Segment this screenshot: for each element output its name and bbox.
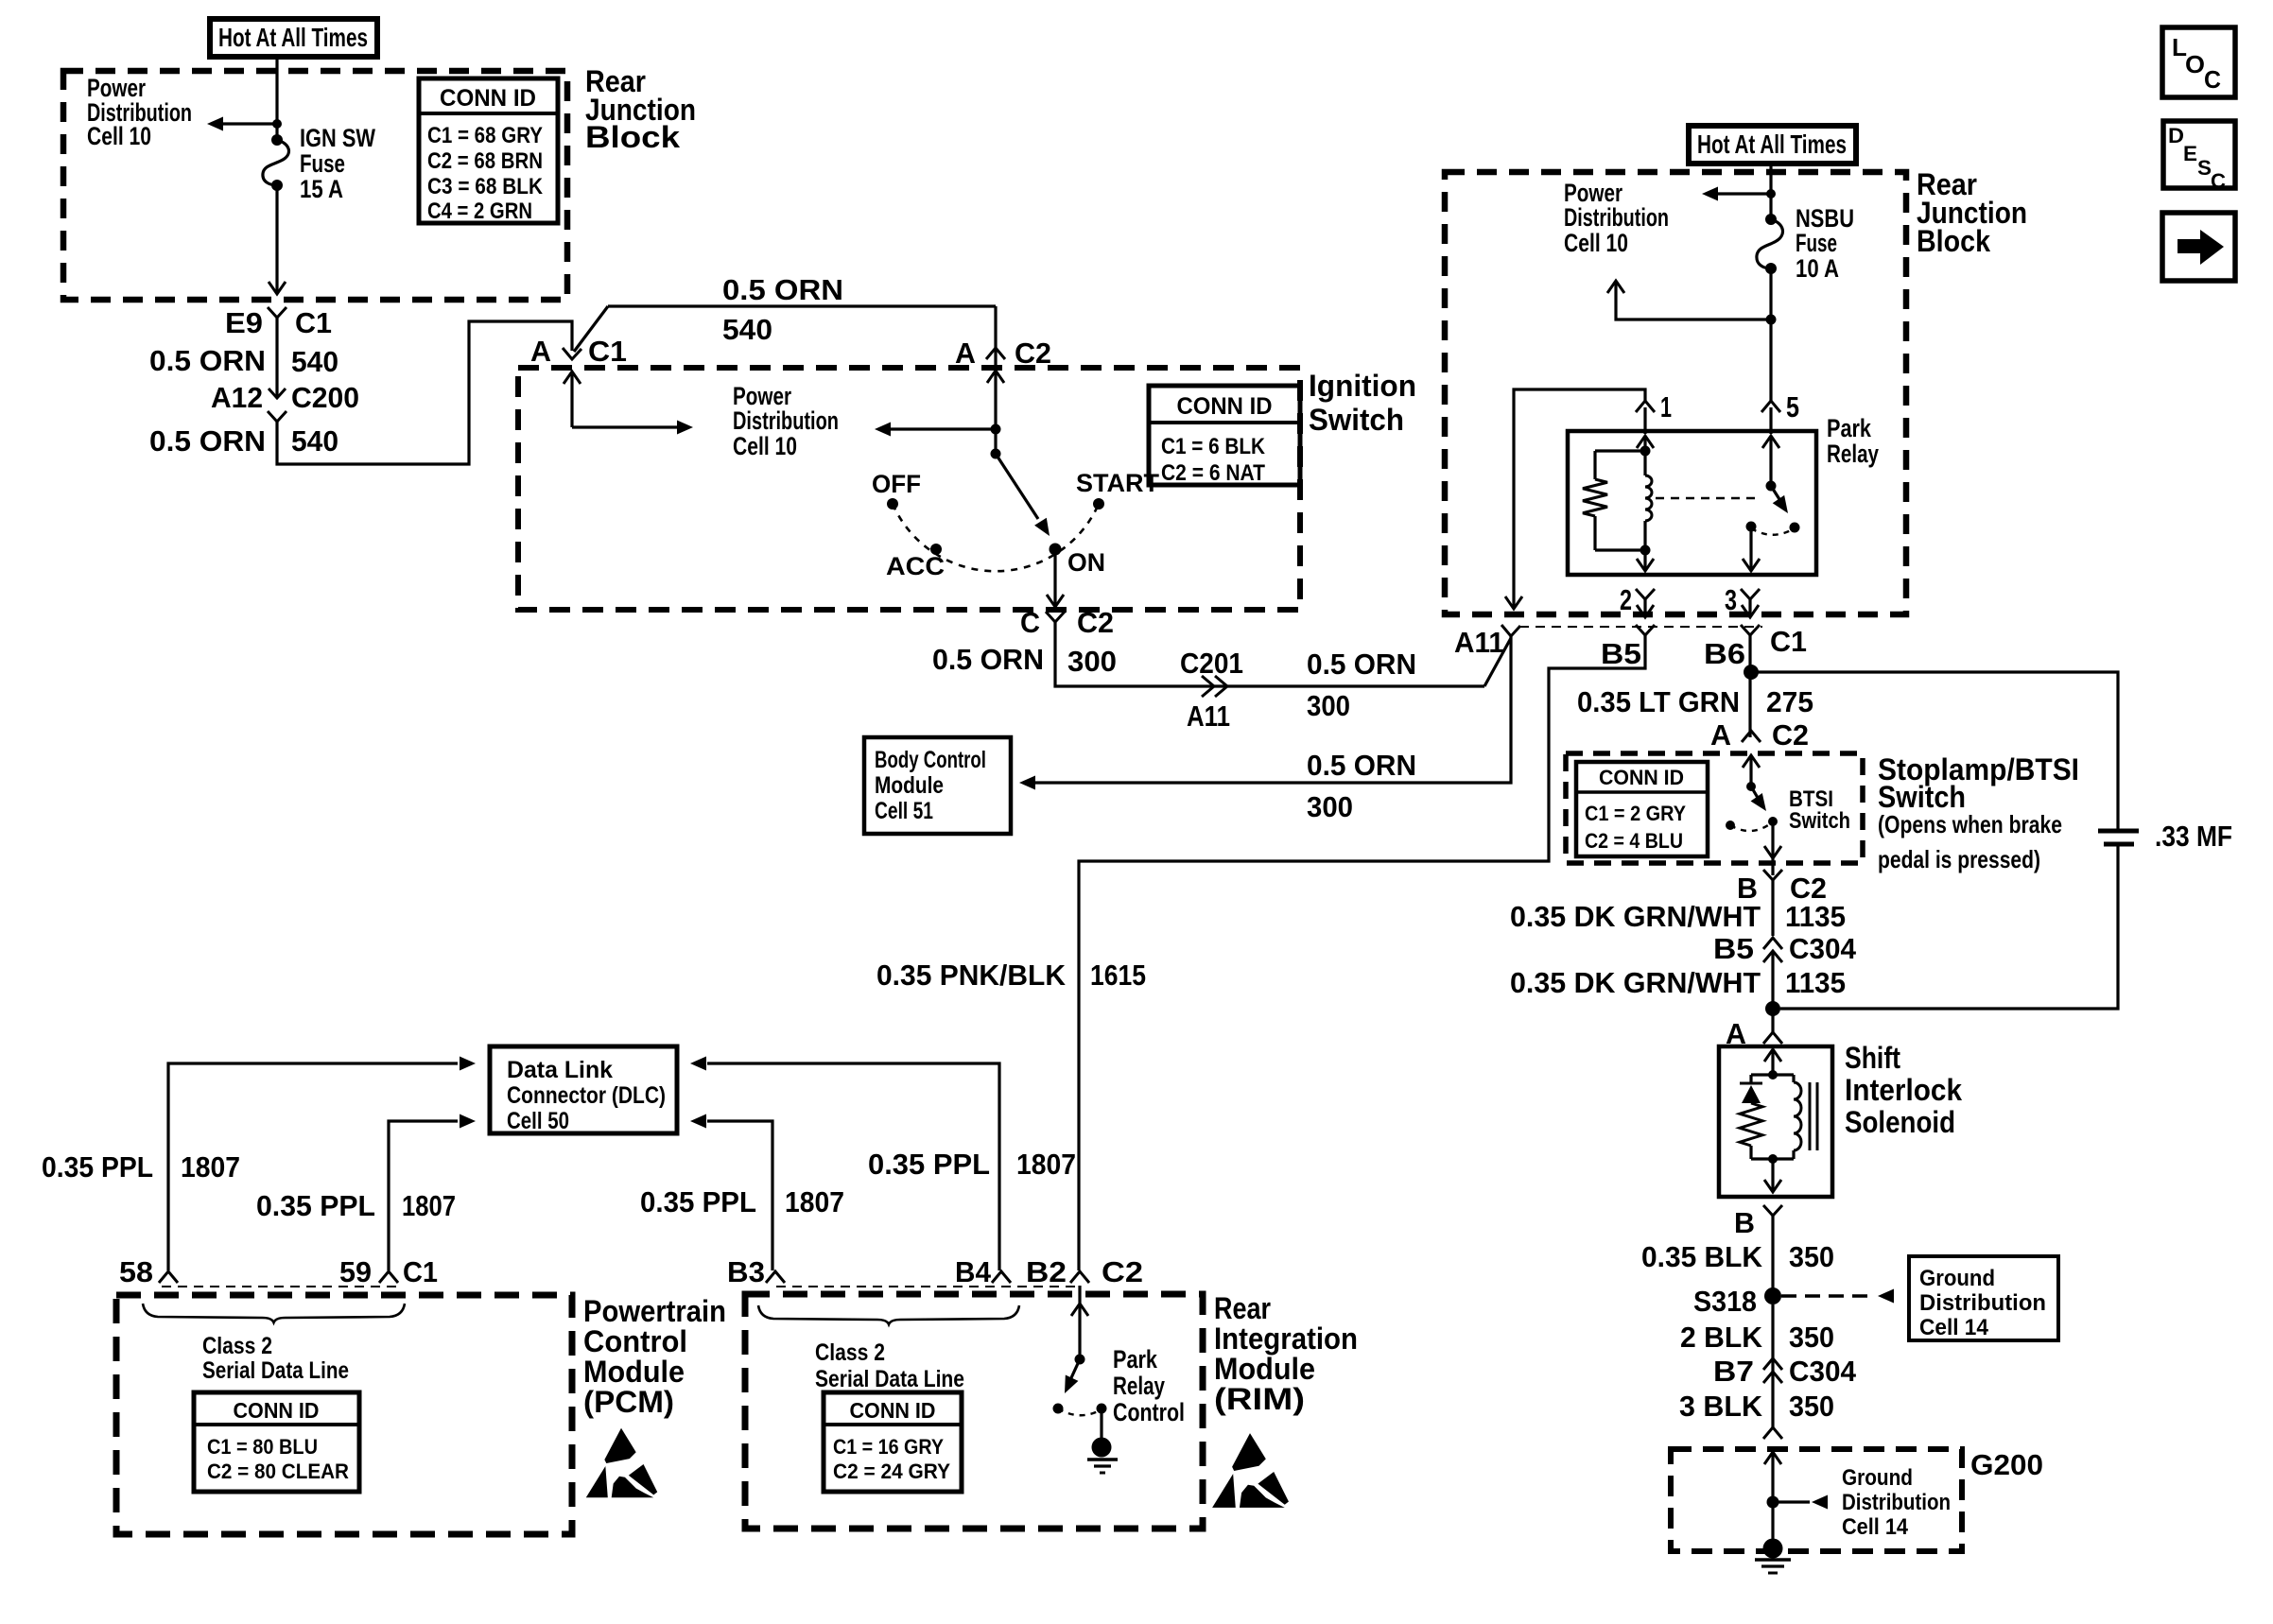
svg-text:A: A (1710, 718, 1731, 752)
node B6 capacitor tap (1744, 665, 1759, 680)
connector B (shift interlock solenoid) (1734, 1205, 1782, 1239)
wire label 0.5 ORN (jumper) (722, 273, 843, 306)
capacitor .33 MF plates (2098, 831, 2139, 844)
solenoid coil (1794, 1075, 1801, 1159)
node ignition feed (991, 424, 1001, 435)
svg-text:0.35 BLK: 0.35 BLK (1641, 1240, 1763, 1273)
BTSI switch arm (1751, 786, 1773, 815)
svg-text:5: 5 (1786, 390, 1799, 423)
svg-text:0.5 ORN: 0.5 ORN (722, 273, 843, 306)
wire C2 into ignition switch (987, 349, 1004, 454)
connector B4 (RIM) (955, 1255, 1011, 1288)
svg-text:C201: C201 (1180, 647, 1243, 680)
wire label 1807 (B4) (1016, 1148, 1076, 1181)
wire PCM 58 to DLC (168, 1057, 476, 1271)
brace Class 2 serial data (RIM) (758, 1305, 1019, 1324)
park relay control travel dashed arc (1058, 1408, 1102, 1415)
svg-text:Distribution: Distribution (733, 406, 839, 435)
svg-text:S: S (2197, 156, 2212, 180)
shift interlock solenoid box (1719, 1046, 1832, 1197)
solenoid suppression diode (1740, 1075, 1762, 1103)
svg-text:B: B (1734, 1206, 1755, 1239)
svg-text:C: C (1020, 606, 1040, 639)
wire label 300 (to C201) (1067, 645, 1117, 678)
label Stoplamp/BTSI Switch (1878, 752, 2079, 873)
svg-text:0.35 PPL: 0.35 PPL (256, 1189, 375, 1222)
svg-text:300: 300 (1307, 790, 1353, 823)
svg-text:C: C (2211, 169, 2226, 193)
in-line connector C200 pin A12 (211, 381, 359, 422)
svg-text:0.35 DK GRN/WHT: 0.35 DK GRN/WHT (1510, 966, 1761, 999)
wire fuse to connector E9 (269, 189, 286, 294)
svg-text:Interlock: Interlock (1845, 1073, 1962, 1107)
svg-text:2 BLK: 2 BLK (1680, 1321, 1763, 1354)
ignition switch arm to ON (996, 454, 1055, 540)
wire label 2 BLK (1680, 1321, 1763, 1354)
svg-text:C2 = 6 NAT: C2 = 6 NAT (1161, 460, 1265, 486)
connector B2 / C2 (RIM) (1026, 1255, 1143, 1288)
wire label 1615 (1090, 959, 1146, 992)
wire RIM B4 to DLC (690, 1057, 999, 1271)
wire to capacitor (top) (1751, 672, 2118, 829)
label Ground Distribution Cell 14 (G200) (1842, 1465, 1951, 1540)
svg-text:Switch: Switch (1309, 403, 1404, 437)
svg-text:C2: C2 (1077, 606, 1114, 639)
svg-text:540: 540 (291, 424, 338, 458)
svg-text:C304: C304 (1789, 1355, 1857, 1388)
node G200 branch (1767, 1496, 1779, 1509)
svg-text:3: 3 (1725, 583, 1737, 616)
park relay switch feed (1762, 407, 1779, 492)
svg-text:Ground: Ground (1919, 1266, 1995, 1291)
svg-text:O: O (2185, 50, 2205, 78)
icon box LOC (2162, 27, 2235, 97)
svg-text:1615: 1615 (1090, 959, 1146, 992)
svg-text:Ignition: Ignition (1309, 369, 1416, 403)
wire label 300 (after C201) (1307, 689, 1350, 722)
svg-text:C304: C304 (1789, 932, 1857, 965)
label G200 (1970, 1448, 2043, 1481)
CONN ID table (ignition switch) (1149, 386, 1300, 486)
wire into solenoid (1764, 1049, 1781, 1075)
svg-text:Block: Block (1917, 224, 1990, 258)
ESD sensitive symbol (PCM) (586, 1428, 657, 1498)
svg-text:IGN SW: IGN SW (300, 124, 375, 152)
park relay switch arm (1771, 486, 1794, 517)
svg-text:Cell 10: Cell 10 (733, 432, 797, 460)
in-line connector B7 / C304 (1713, 1355, 1857, 1388)
icon box DESC (2163, 121, 2235, 193)
wire pin A into switch to Power Distribution (564, 371, 693, 435)
connector C / C2 (ignition switch output) (1020, 606, 1114, 639)
svg-text:C3 = 68 BLK: C3 = 68 BLK (427, 174, 544, 199)
solenoid top rail (1751, 1070, 1794, 1080)
ignition switch dashed outline (518, 368, 1300, 610)
svg-text:350: 350 (1789, 1390, 1834, 1423)
svg-text:Solenoid: Solenoid (1845, 1105, 1955, 1139)
svg-text:B7: B7 (1713, 1355, 1754, 1388)
svg-text:.33 MF: .33 MF (2155, 820, 2232, 853)
svg-text:C2 = 4 BLU: C2 = 4 BLU (1585, 829, 1683, 853)
connector A / C2 (stoplamp switch) (1710, 718, 1809, 752)
wire arrow to Ground Distribution Cell 14 (G200) (1773, 1495, 1828, 1510)
connector into G200 (1763, 1427, 1782, 1439)
svg-text:C4 = 2 GRN: C4 = 2 GRN (427, 199, 532, 224)
label Power Distribution Cell 10 (left) (87, 74, 192, 150)
wire BTSI switch to B/C2 (1764, 821, 1781, 875)
svg-text:0.35 LT GRN: 0.35 LT GRN (1577, 685, 1740, 718)
svg-text:Control: Control (1113, 1398, 1185, 1426)
in-line connector B5 / C304 (1713, 932, 1857, 965)
ground point G200 (1755, 1539, 1791, 1574)
wire B6 down to stoplamp switch (1748, 635, 1751, 737)
svg-text:0.5 ORN: 0.5 ORN (1307, 749, 1416, 782)
rear junction block (right) dashed outline (1445, 172, 1906, 614)
svg-text:Cell 10: Cell 10 (1564, 229, 1628, 257)
park relay coil to pin 2 (1637, 550, 1654, 571)
wire B5 to park relay control (0.35 PNK/BLK 1615) (1079, 635, 1645, 1270)
svg-text:E: E (2183, 142, 2197, 165)
svg-text:Park: Park (1113, 1345, 1158, 1373)
box Data Link Connector (DLC) Cell 50 (490, 1046, 677, 1134)
svg-text:Module: Module (875, 772, 944, 799)
wire B/C2 to C304 (1771, 880, 1774, 936)
connector pin 1 of park relay (1636, 390, 1672, 423)
svg-text:0.35 DK GRN/WHT: 0.35 DK GRN/WHT (1510, 900, 1761, 933)
svg-text:Hot At All Times: Hot At All Times (218, 23, 368, 52)
svg-text:Distribution: Distribution (1919, 1290, 2046, 1316)
label Ignition Switch (1309, 369, 1416, 437)
svg-text:1807: 1807 (402, 1189, 456, 1222)
svg-text:Cell 50: Cell 50 (507, 1108, 569, 1134)
stoplamp/BTSI switch dashed outline (1566, 753, 1863, 863)
in-line connector C201 pin A11 (1180, 647, 1243, 733)
svg-text:A: A (530, 335, 551, 368)
svg-text:CONN ID: CONN ID (440, 85, 536, 112)
svg-text:C200: C200 (291, 381, 359, 414)
wire label 540 (jumper) (722, 313, 772, 346)
svg-text:300: 300 (1307, 689, 1350, 722)
label Power Distribution Cell 10 (right) (1564, 179, 1669, 257)
wire label 0.35 LT GRN (1577, 685, 1740, 718)
label START (1076, 469, 1159, 497)
svg-text:B2: B2 (1026, 1255, 1067, 1288)
wire arrow to Power Distribution (right) (1702, 187, 1771, 201)
BTSI switch pivot dot (1746, 782, 1756, 791)
wire arrow to Power Distribution (from C2 feed) (875, 423, 996, 437)
switch position dot ON (1050, 544, 1062, 556)
wire arrow to Power Distribution Cell 10 (left) (207, 117, 277, 131)
svg-text:C1 = 16 GRY: C1 = 16 GRY (833, 1435, 944, 1459)
wire PCM 59 to DLC (389, 1114, 476, 1271)
svg-text:(RIM): (RIM) (1214, 1382, 1305, 1416)
wire ON to connector C (1047, 549, 1064, 607)
wire label 3 BLK (1679, 1390, 1763, 1423)
svg-text:0.35 PPL: 0.35 PPL (868, 1148, 990, 1181)
svg-text:Data Link: Data Link (507, 1057, 613, 1083)
wire label 0.35 PPL (59) (256, 1189, 375, 1222)
svg-text:2: 2 (1620, 583, 1632, 616)
connector pin 5 of park relay (1761, 390, 1799, 423)
CONN ID table (rear junction block left) (419, 78, 558, 224)
svg-text:Hot At All Times: Hot At All Times (1697, 130, 1847, 159)
wire solenoid to S318 (1771, 1216, 1774, 1291)
park relay contact travel arc (1751, 528, 1793, 535)
connector 58 (PCM) (119, 1255, 178, 1288)
park relay box (1568, 431, 1816, 575)
wire label 350 (2) (1789, 1321, 1834, 1354)
svg-text:350: 350 (1789, 1321, 1834, 1354)
CONN ID table (stoplamp/BTSI switch) (1576, 762, 1708, 856)
park relay suppression resistor (1583, 451, 1607, 550)
svg-text:58: 58 (119, 1255, 153, 1288)
svg-text:A11: A11 (1454, 626, 1504, 659)
CONN ID table (PCM) (194, 1392, 359, 1492)
svg-text:Fuse: Fuse (1796, 229, 1837, 257)
node ignition switch pivot (991, 449, 1001, 459)
svg-text:E9: E9 (225, 306, 263, 339)
wire A11 branch to Body Control Module (1019, 635, 1511, 790)
connector E9 / C1 (female) (225, 306, 332, 339)
svg-text:Ground: Ground (1842, 1465, 1913, 1491)
svg-text:540: 540 (722, 313, 772, 346)
label Park Relay Control (1113, 1345, 1185, 1426)
svg-text:Serial Data Line: Serial Data Line (815, 1366, 964, 1392)
svg-text:Control: Control (583, 1324, 687, 1358)
wire B2 into RIM park relay control (1071, 1286, 1088, 1359)
park relay control rest dot (1053, 1404, 1064, 1414)
solenoid bottom rail (1751, 1154, 1794, 1164)
park relay coil (1645, 451, 1652, 550)
ground point (RIM park relay control) (1087, 1438, 1118, 1474)
connector A11 (rear junction block) (1454, 625, 1520, 659)
label ACC (886, 552, 945, 580)
svg-text:540: 540 (291, 345, 338, 378)
svg-text:Integration: Integration (1214, 1322, 1358, 1356)
svg-text:Fuse: Fuse (300, 149, 345, 178)
svg-text:0.5 ORN: 0.5 ORN (1307, 648, 1416, 681)
wire fuse to park relay pin 5 (1769, 272, 1772, 402)
svg-text:OFF: OFF (872, 470, 921, 498)
svg-text:C2: C2 (1015, 337, 1051, 370)
label Power Distribution Cell 10 (ignition switch) (733, 382, 839, 460)
rear junction block (left) dashed outline (63, 71, 567, 300)
connector B3 (RIM) (727, 1255, 785, 1288)
svg-text:1135: 1135 (1785, 966, 1846, 999)
wire diagonal into A11 (1484, 638, 1511, 686)
svg-text:0.35 PPL: 0.35 PPL (42, 1150, 153, 1183)
box Ground Distribution Cell 14 (S318) (1909, 1256, 2058, 1340)
svg-text:10 A: 10 A (1796, 254, 1839, 283)
svg-text:C1: C1 (403, 1255, 438, 1288)
connector row dashed line (rear junction block right) (1519, 626, 1762, 628)
switch position dot OFF (887, 498, 898, 510)
svg-text:1: 1 (1660, 390, 1672, 423)
node: tap to Power Distribution arrow (up) (1766, 315, 1777, 325)
svg-text:B6: B6 (1704, 637, 1745, 670)
node: tap to Power Distribution (right) (1766, 189, 1776, 199)
svg-text:B5: B5 (1713, 932, 1754, 965)
svg-text:C1: C1 (1770, 625, 1807, 658)
connector pin 2 of park relay (1620, 583, 1655, 617)
wire label 1807 (B3) (785, 1185, 844, 1218)
svg-text:1807: 1807 (785, 1185, 844, 1218)
svg-text:Cell 10: Cell 10 (87, 122, 151, 150)
label OFF (872, 470, 921, 498)
wire into G200 (1764, 1452, 1781, 1541)
connector B / C2 (stoplamp switch out) (1737, 870, 1827, 905)
powertrain control module dashed outline (116, 1295, 572, 1534)
wire label 300 (to BCM) (1307, 790, 1353, 823)
box Body Control Module Cell 51 (864, 737, 1011, 834)
park relay control pivot dot (1075, 1355, 1085, 1365)
connector row dashed line (RIM) (776, 1286, 1078, 1287)
icon box arrow (2162, 213, 2235, 281)
svg-text:1135: 1135 (1785, 900, 1846, 933)
wire label 0.35 PPL (58) (42, 1150, 153, 1183)
svg-text:Cell 14: Cell 14 (1842, 1514, 1909, 1540)
svg-text:1807: 1807 (181, 1150, 240, 1183)
wire contact to RIM ground (1100, 1408, 1102, 1441)
svg-text:Cell 14: Cell 14 (1919, 1315, 1989, 1340)
label Class 2 Serial Data Line (PCM) (202, 1333, 349, 1384)
svg-text:Distribution: Distribution (1842, 1490, 1951, 1515)
park relay coil feed (1637, 407, 1654, 457)
svg-text:Module: Module (583, 1355, 685, 1389)
label Rear Junction Block (right) (1917, 167, 2027, 258)
svg-text:C2 = 24 GRY: C2 = 24 GRY (833, 1460, 950, 1483)
svg-text:ACC: ACC (886, 552, 945, 580)
wire label 0.5 ORN 540 (upper) (149, 344, 338, 378)
wire label 1807 (58) (181, 1150, 240, 1183)
connector A / C2 of ignition switch (955, 337, 1051, 370)
wire C200 to ignition switch pin A (277, 321, 572, 464)
wire label 0.5 ORN (after C201) (1307, 648, 1416, 681)
svg-text:Connector (DLC): Connector (DLC) (507, 1082, 666, 1109)
fuse NSBU 10A (1757, 214, 1783, 274)
park relay control contact dot (1097, 1404, 1107, 1414)
wire from Hot At All Times (right) down (1769, 164, 1772, 219)
svg-text:A12: A12 (211, 381, 263, 414)
BTSI switch contact dot (1768, 817, 1778, 826)
svg-text:Relay: Relay (1113, 1372, 1165, 1400)
svg-text:A11: A11 (1187, 700, 1230, 733)
svg-text:Relay: Relay (1827, 440, 1879, 468)
wire label 275 (1766, 685, 1813, 718)
wire C304 to solenoid (1771, 952, 1774, 1034)
rear integration module dashed outline (745, 1294, 1203, 1529)
svg-text:Rear: Rear (1214, 1291, 1271, 1325)
wire label 0.35 BLK (1641, 1240, 1763, 1273)
switch position dot START (1093, 498, 1104, 510)
wire arrow up to Power Distribution cell 10 (1607, 281, 1771, 320)
connector B5 (rear junction block) (1601, 625, 1655, 670)
wire label 0.35 DK GRN/WHT (upper) (1510, 900, 1761, 933)
ESD sensitive symbol (RIM) (1212, 1433, 1289, 1508)
label ON (1067, 548, 1105, 577)
BTSI switch travel dashed arc (1730, 823, 1771, 831)
wire E9 down to C200 (275, 318, 278, 397)
svg-text:(PCM): (PCM) (583, 1385, 674, 1419)
park relay contact dot (1746, 522, 1757, 532)
wire RIM B3 to DLC (690, 1114, 772, 1271)
svg-text:C1 = 6 BLK: C1 = 6 BLK (1161, 434, 1266, 459)
connector A (shift interlock solenoid) (1726, 1017, 1782, 1050)
switch position dot ACC (930, 544, 942, 555)
connector A / C1 of ignition switch (530, 306, 627, 368)
svg-text:C1 = 2 GRY: C1 = 2 GRY (1585, 802, 1686, 825)
svg-text:C2: C2 (1772, 718, 1809, 752)
switch travel dashed arc (893, 504, 1099, 571)
svg-text:B3: B3 (727, 1255, 765, 1288)
park relay coil top rail (1595, 449, 1645, 452)
svg-text:Shift: Shift (1845, 1041, 1900, 1075)
label NSBU Fuse 10 A (1796, 204, 1854, 283)
svg-text:59: 59 (339, 1255, 372, 1288)
label Shift Interlock Solenoid (1845, 1041, 1962, 1139)
svg-text:275: 275 (1766, 685, 1813, 718)
park relay control switch arm (1058, 1359, 1080, 1396)
svg-text:Switch: Switch (1878, 780, 1966, 814)
wire label 0.35 PNK/BLK (876, 959, 1067, 992)
brace Class 2 serial data (PCM) (143, 1304, 405, 1322)
connector row dashed line (PCM) (162, 1286, 397, 1287)
svg-text:A: A (955, 337, 976, 370)
svg-text:CONN ID: CONN ID (1599, 766, 1684, 789)
wire label 1807 (59) (402, 1189, 456, 1222)
label Rear Junction Block (left) (585, 64, 696, 154)
svg-text:350: 350 (1789, 1240, 1834, 1273)
label Powertrain Control Module (PCM) (583, 1294, 726, 1419)
svg-text:Module: Module (1214, 1352, 1315, 1386)
svg-text:C2 = 68 BRN: C2 = 68 BRN (427, 148, 543, 174)
svg-text:pedal is pressed): pedal is pressed) (1878, 845, 2040, 873)
label Rear Integration Module (RIM) (1214, 1291, 1358, 1416)
wire 0.5 ORN 540 jumper to C2 (608, 306, 996, 349)
wire label 1135 (lower) (1785, 966, 1846, 999)
svg-text:Class 2: Class 2 (815, 1339, 885, 1366)
connector B6 / C1 (rear junction block) (1704, 625, 1807, 670)
solenoid suppression resistor (1740, 1103, 1762, 1159)
wire label 0.35 PPL (B3) (640, 1185, 756, 1218)
svg-text:B5: B5 (1601, 637, 1641, 670)
svg-text:C1 = 80 BLU: C1 = 80 BLU (207, 1435, 318, 1459)
svg-text:Switch: Switch (1789, 808, 1850, 834)
svg-text:0.35 PPL: 0.35 PPL (640, 1185, 756, 1218)
wire out of solenoid (1764, 1159, 1781, 1192)
svg-text:0.5 ORN: 0.5 ORN (149, 344, 266, 377)
svg-text:Distribution: Distribution (1564, 203, 1669, 232)
node: tap to Power Distribution (272, 119, 282, 129)
fuse IGN SW 15A (263, 134, 289, 191)
label BTSI Switch (1789, 786, 1850, 834)
wire label 350 (1) (1789, 1240, 1834, 1273)
svg-text:C: C (2204, 65, 2221, 94)
svg-text:(Opens when brake: (Opens when brake (1878, 810, 2062, 838)
svg-text:CONN ID: CONN ID (234, 1398, 320, 1423)
wire label 0.35 PPL (B4) (868, 1148, 990, 1181)
svg-text:Cell 51: Cell 51 (875, 798, 933, 824)
wire label 1135 (upper) (1785, 900, 1846, 933)
park relay coil bottom rail (1595, 545, 1651, 556)
svg-text:Serial Data Line: Serial Data Line (202, 1357, 349, 1384)
wire label 0.5 ORN 540 (lower) (149, 424, 338, 458)
label Class 2 Serial Data Line (RIM) (815, 1339, 964, 1392)
svg-text:S318: S318 (1693, 1285, 1757, 1318)
svg-text:Block: Block (585, 120, 680, 154)
power label box: Hot At All Times (left) (210, 19, 377, 57)
BTSI switch rest dot (1726, 821, 1735, 830)
